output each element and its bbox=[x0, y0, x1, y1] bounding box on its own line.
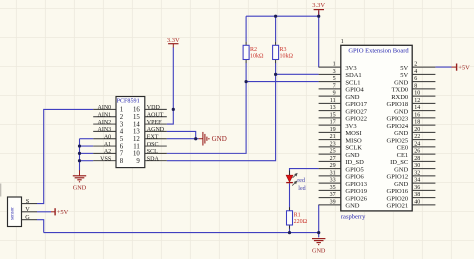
svg-text:2: 2 bbox=[120, 114, 124, 121]
PCF8591 pin 9 SDA (right) bbox=[145, 160, 167, 162]
svg-text:G: G bbox=[25, 214, 30, 221]
svg-text:GND: GND bbox=[345, 203, 359, 210]
svg-text:OSC: OSC bbox=[147, 142, 159, 148]
svg-text:AOUT: AOUT bbox=[147, 112, 164, 118]
GPIO pin 20 GND (right) bbox=[412, 131, 435, 133]
wire R2 to GPIO pin5 SCL1 bbox=[246, 81, 319, 83]
GPIO pin 25 GND (left) bbox=[319, 153, 341, 155]
svg-text:5: 5 bbox=[120, 136, 124, 143]
svg-text:GPIO21: GPIO21 bbox=[387, 203, 409, 210]
svg-text:VDD: VDD bbox=[147, 105, 161, 111]
GPIO pin 35 GPIO19 (left) bbox=[319, 189, 341, 191]
power port +5V (at GPIO pin2) bbox=[452, 66, 457, 68]
svg-text:23: 23 bbox=[330, 141, 336, 147]
svg-text:A1: A1 bbox=[104, 142, 111, 148]
svg-text:S: S bbox=[26, 198, 30, 205]
GPIO pin 21 MISO (left) bbox=[319, 139, 341, 141]
wire 3.3V to VDD vertical bbox=[172, 47, 174, 109]
svg-text:+5V: +5V bbox=[458, 64, 470, 71]
svg-text:40: 40 bbox=[414, 199, 420, 205]
svg-text:12: 12 bbox=[133, 136, 140, 143]
GPIO pin 11 GPIO17 (left) bbox=[319, 102, 341, 104]
svg-text:GPIO20: GPIO20 bbox=[387, 195, 409, 202]
svg-text:GND: GND bbox=[345, 94, 359, 101]
svg-text:4: 4 bbox=[120, 129, 124, 136]
svg-text:GPIO27: GPIO27 bbox=[345, 108, 367, 115]
svg-text:31: 31 bbox=[330, 170, 336, 176]
svg-text:7: 7 bbox=[333, 83, 336, 89]
svg-text:GND: GND bbox=[394, 130, 408, 137]
svg-text:10: 10 bbox=[414, 91, 420, 97]
svg-text:11: 11 bbox=[133, 143, 140, 150]
svg-text:R3: R3 bbox=[280, 47, 287, 53]
connector J1 GPIO Extension Board body bbox=[341, 45, 412, 211]
svg-text:GPIO24: GPIO24 bbox=[387, 123, 409, 130]
GPIO pin 40 GPIO21 (right) bbox=[412, 204, 435, 206]
svg-text:GND: GND bbox=[394, 166, 408, 173]
wire bottom ground rail bbox=[44, 232, 319, 234]
svg-text:9: 9 bbox=[136, 158, 140, 165]
svg-text:3.3V: 3.3V bbox=[312, 2, 325, 9]
svg-text:6: 6 bbox=[120, 143, 124, 150]
svg-text:2: 2 bbox=[414, 62, 417, 68]
GPIO pin 8 TXD0 (right) bbox=[412, 88, 435, 90]
GPIO pin 4 5V (right) bbox=[412, 73, 435, 75]
wire SDA to R3 bottom bbox=[167, 63, 276, 161]
svg-text:39: 39 bbox=[330, 199, 336, 205]
wire AGND to EXT node bbox=[167, 131, 196, 138]
PCF8591 pin 11 OSC (right) bbox=[145, 145, 167, 147]
svg-text:3V3: 3V3 bbox=[345, 65, 356, 72]
svg-text:11: 11 bbox=[330, 98, 336, 104]
power port 3.3V (left, at VDD) bbox=[172, 44, 174, 48]
PCF8591 pin 14 VPEF (right) bbox=[145, 123, 167, 125]
svg-text:ID_SC: ID_SC bbox=[390, 159, 408, 166]
svg-text:GND: GND bbox=[394, 181, 408, 188]
PCF8591 pin 4 AIN3 (left) bbox=[93, 130, 116, 132]
GPIO pin 10 RXD0 (right) bbox=[412, 95, 435, 97]
GPIO pin 29 GPIO5 (left) bbox=[319, 168, 341, 170]
wire VDD to VREF (down then left) bbox=[167, 109, 174, 124]
svg-text:A2: A2 bbox=[104, 149, 111, 155]
GPIO pin 3 SDA1 (left) bbox=[319, 73, 341, 75]
svg-text:33: 33 bbox=[330, 178, 336, 184]
svg-text:3: 3 bbox=[333, 69, 336, 75]
svg-text:GPIO25: GPIO25 bbox=[387, 137, 409, 144]
wire GPIO pin29 to LED bbox=[290, 169, 319, 175]
svg-text:SCLK: SCLK bbox=[345, 145, 362, 152]
GPIO pin 36 GPIO16 (right) bbox=[412, 189, 435, 191]
connector P1 sensor (potentiometer) 3-pin bbox=[8, 197, 22, 227]
svg-text:GPIO13: GPIO13 bbox=[345, 181, 367, 188]
svg-text:VPEF: VPEF bbox=[147, 120, 162, 126]
GPIO pin 28 ID_SC (right) bbox=[412, 160, 435, 162]
power port 3.3V (top right) bbox=[318, 10, 320, 15]
IC PCF8591 ADC/DAC body bbox=[116, 97, 145, 168]
GPIO pin 30 GND (right) bbox=[412, 168, 435, 170]
GPIO pin 26 CE1 (right) bbox=[412, 153, 435, 155]
svg-text:10kΩ: 10kΩ bbox=[250, 53, 264, 59]
svg-text:5V: 5V bbox=[400, 65, 408, 72]
svg-text:27: 27 bbox=[330, 156, 336, 162]
wire GPIO pin39 down to GND bbox=[318, 205, 320, 238]
svg-text:16: 16 bbox=[414, 112, 420, 118]
svg-text:GPIO12: GPIO12 bbox=[387, 174, 409, 181]
PCF8591 pin 5 A0 (left) bbox=[93, 138, 116, 140]
GPIO pin 34 GND (right) bbox=[412, 182, 435, 184]
GPIO pin 17 3V3 (left) bbox=[319, 124, 341, 126]
wire sensor V to +5V bbox=[37, 211, 51, 213]
svg-text:21: 21 bbox=[330, 134, 336, 140]
GPIO pin 15 GPIO22 (left) bbox=[319, 117, 341, 119]
sensor pin G bbox=[22, 219, 38, 221]
ground symbol bottom right bbox=[312, 239, 325, 245]
svg-text:RXD0: RXD0 bbox=[391, 94, 408, 101]
svg-text:15: 15 bbox=[330, 112, 336, 118]
svg-text:MOSI: MOSI bbox=[345, 130, 361, 137]
svg-text:1: 1 bbox=[333, 62, 336, 68]
svg-text:26: 26 bbox=[414, 149, 420, 155]
wire GPIO pin2 to +5V bbox=[435, 66, 451, 68]
svg-text:35: 35 bbox=[330, 185, 336, 191]
diode LED red (cathode down) bbox=[289, 171, 291, 176]
svg-text:GPIO6: GPIO6 bbox=[345, 174, 364, 181]
svg-text:GND: GND bbox=[312, 247, 326, 254]
PCF8591 pin 6 A1 (left) bbox=[93, 145, 116, 147]
power port +5V (at sensor V) bbox=[51, 211, 55, 213]
wire rail to R3 top bbox=[275, 16, 277, 42]
svg-text:GND: GND bbox=[394, 108, 408, 115]
GPIO pin 38 GPIO20 (right) bbox=[412, 197, 435, 199]
svg-text:AIN1: AIN1 bbox=[98, 112, 112, 118]
svg-text:37: 37 bbox=[330, 192, 336, 198]
wire LED to R1 bbox=[289, 183, 291, 210]
svg-text:PCF8591: PCF8591 bbox=[117, 98, 140, 104]
PCF8591 pin 16 VDD (right) bbox=[145, 108, 167, 110]
GPIO pin 14 GND (right) bbox=[412, 110, 435, 112]
wire SCL to R2 bottom bbox=[167, 63, 246, 153]
PCF8591 pin 15 AOUT (right) bbox=[145, 116, 167, 118]
svg-text:sensor: sensor bbox=[9, 207, 15, 220]
svg-text:10: 10 bbox=[133, 151, 140, 158]
sensor pin S bbox=[22, 203, 38, 205]
svg-text:8: 8 bbox=[414, 83, 417, 89]
wire AIN0 to sensor S bbox=[37, 109, 93, 203]
svg-text:34: 34 bbox=[414, 178, 420, 184]
GPIO pin 23 SCLK (left) bbox=[319, 146, 341, 148]
svg-text:R2: R2 bbox=[250, 47, 257, 53]
PCF8591 pin 3 AIN2 (left) bbox=[93, 123, 116, 125]
svg-text:14: 14 bbox=[414, 105, 420, 111]
power ground GND (at EXT, rotated right) bbox=[199, 132, 209, 146]
wire sensor G down to rail bbox=[37, 220, 44, 233]
svg-text:SCL: SCL bbox=[147, 149, 158, 155]
svg-text:GND: GND bbox=[345, 152, 359, 159]
GPIO pin 33 GPIO13 (left) bbox=[319, 182, 341, 184]
svg-text:3V3: 3V3 bbox=[345, 123, 356, 130]
svg-text:AIN2: AIN2 bbox=[98, 120, 112, 126]
svg-text:19: 19 bbox=[330, 127, 336, 133]
svg-text:AIN3: AIN3 bbox=[98, 127, 112, 133]
sensor pin V bbox=[22, 211, 38, 213]
svg-text:SDA1: SDA1 bbox=[345, 72, 361, 79]
wire R3 to GPIO pin3 SDA1 bbox=[276, 73, 319, 75]
svg-text:red: red bbox=[297, 178, 305, 184]
resistor R3 10k pull-up bbox=[275, 42, 277, 46]
svg-text:EXT: EXT bbox=[147, 134, 159, 140]
svg-text:GPIO17: GPIO17 bbox=[345, 101, 367, 108]
svg-text:8: 8 bbox=[120, 158, 124, 165]
GPIO pin 39 GND (left) bbox=[319, 204, 341, 206]
PCF8591 pin 8 VSS (left) bbox=[93, 160, 116, 162]
GPIO pin 9 GND (left) bbox=[319, 95, 341, 97]
power ground GND (A0/A1/A2/VSS bus) bbox=[79, 170, 81, 176]
svg-text:1: 1 bbox=[120, 107, 123, 114]
svg-text:12: 12 bbox=[414, 98, 420, 104]
svg-text:GPIO Extension Board: GPIO Extension Board bbox=[348, 47, 409, 54]
svg-text:20: 20 bbox=[414, 127, 420, 133]
GPIO pin 27 ID_SD (left) bbox=[319, 160, 341, 162]
svg-text:3.3V: 3.3V bbox=[167, 37, 180, 44]
svg-text:SDA: SDA bbox=[147, 156, 160, 162]
wire A0-A1-A2-VSS ground bus bbox=[80, 139, 94, 171]
svg-text:SCL1: SCL1 bbox=[345, 79, 360, 86]
GPIO pin 1 3V3 (left) bbox=[319, 66, 341, 68]
svg-text:1: 1 bbox=[341, 39, 344, 45]
svg-text:+5V: +5V bbox=[57, 209, 69, 216]
resistor R2 10k pull-up bbox=[245, 42, 247, 46]
svg-text:38: 38 bbox=[414, 192, 420, 198]
GPIO pin 6 GND (right) bbox=[412, 81, 435, 83]
GPIO pin 18 GPIO24 (right) bbox=[412, 124, 435, 126]
svg-text:GPIO23: GPIO23 bbox=[387, 116, 409, 123]
svg-text:GND: GND bbox=[212, 135, 227, 143]
svg-text:CE0: CE0 bbox=[397, 145, 409, 152]
wire 3.3V top rail bbox=[246, 15, 319, 17]
resistor R1 220 ohm bbox=[289, 207, 291, 211]
svg-text:16: 16 bbox=[133, 107, 140, 114]
svg-text:ID_SD: ID_SD bbox=[345, 159, 364, 166]
GPIO pin 24 CE0 (right) bbox=[412, 146, 435, 148]
svg-text:28: 28 bbox=[414, 156, 420, 162]
GPIO pin 16 GPIO23 (right) bbox=[412, 117, 435, 119]
svg-text:GPIO18: GPIO18 bbox=[387, 101, 409, 108]
PCF8591 pin 7 A2 (left) bbox=[93, 152, 116, 154]
GPIO pin 37 GPIO26 (left) bbox=[319, 197, 341, 199]
GPIO pin 7 GPIO4 (left) bbox=[319, 88, 341, 90]
svg-text:GPIO19: GPIO19 bbox=[345, 188, 367, 195]
svg-text:VSS: VSS bbox=[100, 156, 111, 162]
svg-text:13: 13 bbox=[133, 129, 140, 136]
svg-text:17: 17 bbox=[330, 120, 336, 126]
svg-text:10kΩ: 10kΩ bbox=[280, 53, 294, 59]
svg-text:GPIO16: GPIO16 bbox=[387, 188, 409, 195]
svg-text:14: 14 bbox=[133, 121, 140, 128]
svg-text:25: 25 bbox=[330, 149, 336, 155]
svg-text:R1: R1 bbox=[294, 213, 301, 219]
svg-text:A0: A0 bbox=[104, 134, 111, 140]
wire rail to R2 top bbox=[245, 16, 247, 42]
junction dots bbox=[172, 108, 175, 111]
svg-text:AIN0: AIN0 bbox=[98, 105, 112, 111]
svg-text:29: 29 bbox=[330, 163, 336, 169]
svg-text:GPIO5: GPIO5 bbox=[345, 166, 363, 173]
svg-text:AGND: AGND bbox=[147, 127, 165, 133]
svg-text:GND: GND bbox=[394, 79, 408, 86]
svg-text:9: 9 bbox=[333, 91, 336, 97]
svg-text:24: 24 bbox=[414, 141, 420, 147]
svg-text:V: V bbox=[25, 206, 30, 213]
ground symbol left bbox=[73, 176, 86, 182]
svg-text:raspberry: raspberry bbox=[341, 213, 366, 220]
svg-text:GPIO4: GPIO4 bbox=[345, 87, 364, 94]
GPIO pin 5 SCL1 (left) bbox=[319, 81, 341, 83]
svg-text:6: 6 bbox=[414, 76, 417, 82]
svg-text:220Ω: 220Ω bbox=[294, 219, 308, 225]
svg-text:18: 18 bbox=[414, 120, 420, 126]
svg-text:7: 7 bbox=[120, 151, 124, 158]
svg-text:5V: 5V bbox=[400, 72, 408, 79]
GPIO pin 22 GPIO25 (right) bbox=[412, 139, 435, 141]
svg-text:22: 22 bbox=[414, 134, 420, 140]
svg-text:GPIO26: GPIO26 bbox=[345, 195, 367, 202]
wire 3.3V rail down to GPIO pin1 bbox=[318, 11, 320, 68]
svg-text:GND: GND bbox=[73, 185, 87, 192]
PCF8591 pin 10 SCL (right) bbox=[145, 152, 167, 154]
PCF8591 pin 13 AGND (right) bbox=[145, 130, 167, 132]
svg-text:GPIO22: GPIO22 bbox=[345, 116, 367, 123]
svg-text:led: led bbox=[298, 186, 305, 192]
svg-text:CE1: CE1 bbox=[397, 152, 409, 159]
svg-text:MISO: MISO bbox=[345, 137, 362, 144]
svg-text:32: 32 bbox=[414, 170, 420, 176]
svg-text:13: 13 bbox=[330, 105, 336, 111]
GPIO pin 31 GPIO6 (left) bbox=[319, 175, 341, 177]
svg-text:5: 5 bbox=[333, 76, 336, 82]
svg-text:30: 30 bbox=[414, 163, 420, 169]
wire R1 to bottom rail bbox=[289, 225, 291, 233]
svg-text:36: 36 bbox=[414, 185, 420, 191]
svg-text:TXD0: TXD0 bbox=[392, 87, 409, 94]
PCF8591 pin 1 AIN0 (left) bbox=[93, 108, 116, 110]
wire EXT to GND symbol bbox=[167, 138, 199, 140]
GPIO pin 19 MOSI (left) bbox=[319, 131, 341, 133]
svg-text:3: 3 bbox=[120, 121, 124, 128]
PCF8591 pin 12 EXT (right) bbox=[145, 138, 167, 140]
PCF8591 pin 2 AIN1 (left) bbox=[93, 116, 116, 118]
GPIO pin 13 GPIO27 (left) bbox=[319, 110, 341, 112]
svg-text:4: 4 bbox=[414, 69, 417, 75]
svg-text:15: 15 bbox=[133, 114, 140, 121]
GPIO pin 12 GPIO18 (right) bbox=[412, 102, 435, 104]
GPIO pin 2 5V (right) bbox=[412, 66, 435, 68]
GPIO pin 32 GPIO12 (right) bbox=[412, 175, 435, 177]
